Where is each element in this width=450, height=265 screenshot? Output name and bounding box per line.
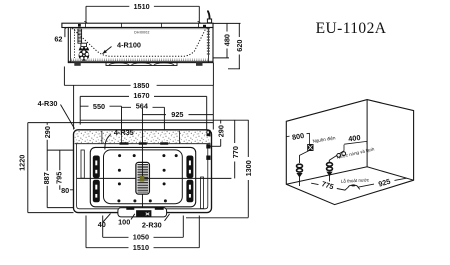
svg-text:Lỗ thoát nước: Lỗ thoát nước bbox=[341, 176, 370, 184]
svg-text:40: 40 bbox=[98, 220, 106, 229]
svg-text:62: 62 bbox=[54, 35, 62, 44]
svg-text:4-R30: 4-R30 bbox=[38, 99, 58, 108]
svg-text:1220: 1220 bbox=[18, 155, 27, 171]
svg-text:1510: 1510 bbox=[133, 243, 149, 252]
svg-text:1510: 1510 bbox=[133, 2, 149, 11]
svg-text:EU-1102A: EU-1102A bbox=[316, 20, 387, 37]
svg-text:290: 290 bbox=[217, 125, 226, 137]
svg-text:800: 800 bbox=[291, 131, 305, 142]
svg-text:2-R30: 2-R30 bbox=[142, 221, 162, 230]
svg-text:4-R100: 4-R100 bbox=[117, 41, 141, 50]
svg-text:564: 564 bbox=[136, 101, 149, 110]
svg-text:620: 620 bbox=[235, 40, 244, 52]
svg-text:100: 100 bbox=[118, 218, 130, 227]
svg-text:290: 290 bbox=[43, 126, 52, 138]
svg-text:1850: 1850 bbox=[133, 81, 149, 90]
svg-text:925: 925 bbox=[377, 177, 391, 189]
svg-text:795: 795 bbox=[54, 172, 63, 184]
svg-text:775: 775 bbox=[321, 179, 335, 191]
svg-text:1670: 1670 bbox=[133, 91, 149, 100]
svg-text:4-R35: 4-R35 bbox=[114, 128, 134, 137]
svg-text:400: 400 bbox=[348, 133, 361, 143]
svg-text:80: 80 bbox=[61, 186, 69, 195]
svg-text:770: 770 bbox=[231, 146, 240, 158]
svg-text:Nguồn điện: Nguồn điện bbox=[312, 135, 336, 144]
svg-text:925: 925 bbox=[171, 110, 183, 119]
svg-text:480: 480 bbox=[223, 34, 232, 46]
svg-text:DHI0002: DHI0002 bbox=[134, 30, 149, 34]
svg-text:887: 887 bbox=[42, 172, 51, 184]
svg-text:1050: 1050 bbox=[133, 233, 149, 242]
svg-text:550: 550 bbox=[93, 102, 105, 111]
svg-text:1300: 1300 bbox=[244, 160, 253, 176]
svg-text:Nước nóng và lạnh: Nước nóng và lạnh bbox=[336, 146, 375, 160]
